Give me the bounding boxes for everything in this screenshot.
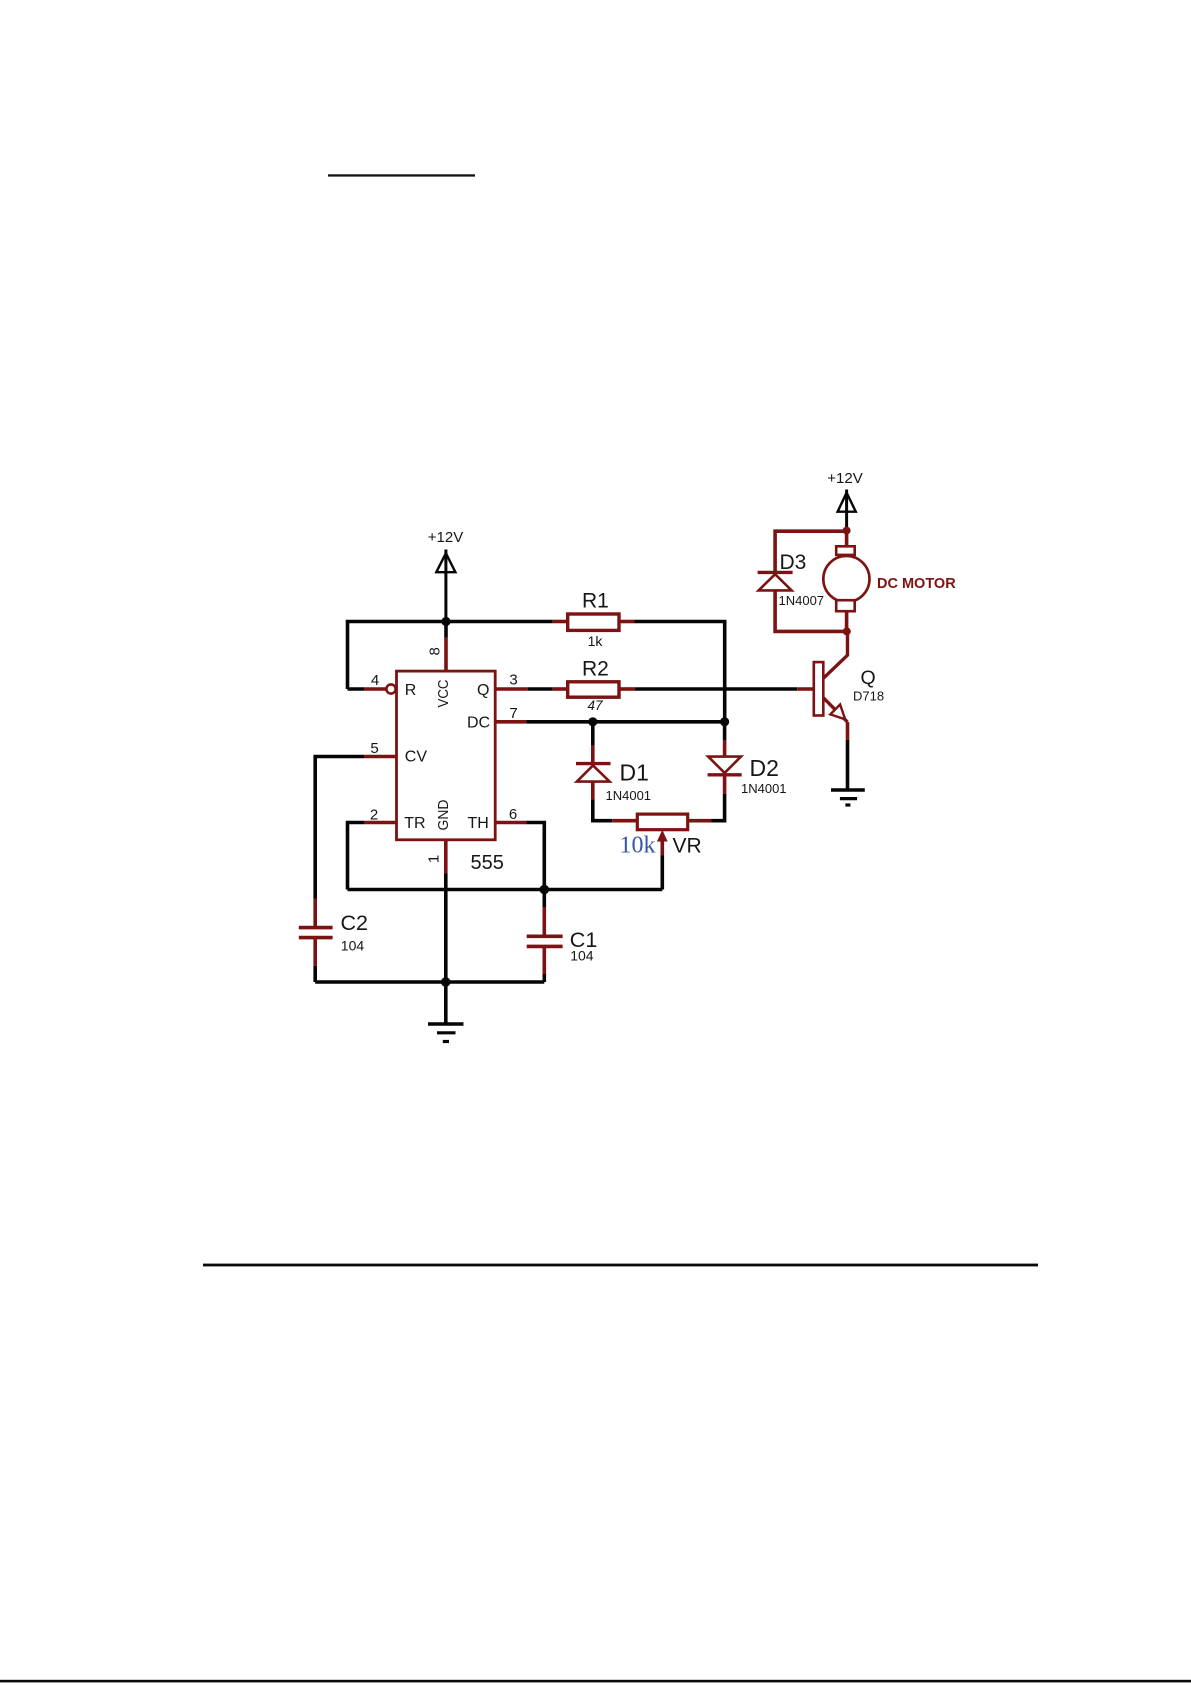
capacitor C2 bbox=[299, 928, 333, 982]
wire pin 3 output bbox=[495, 687, 553, 691]
svg-text:1N4007: 1N4007 bbox=[779, 593, 825, 608]
wire pin 7 discharge bbox=[495, 720, 725, 724]
pin label TH bbox=[468, 815, 489, 832]
value D718 bbox=[853, 689, 884, 704]
power symbol +12V (left) bbox=[436, 550, 455, 622]
value 1N4007 bbox=[779, 593, 825, 608]
horizontal rule mid page bbox=[203, 1264, 1038, 1267]
svg-text:7: 7 bbox=[509, 705, 517, 722]
wire pin 5 CV to C2 bbox=[315, 757, 396, 927]
potentiometer VR wiper arrow bbox=[657, 830, 668, 890]
value 1k bbox=[588, 633, 604, 649]
top heading underline bbox=[328, 174, 475, 176]
resistor R1 label bbox=[582, 590, 609, 613]
wire D2 top bbox=[723, 722, 727, 757]
transistor Q label bbox=[861, 667, 876, 689]
potentiometer VR body bbox=[637, 814, 687, 830]
pin 7 number bbox=[509, 705, 517, 722]
wire pin 2 TR bbox=[348, 823, 397, 890]
svg-text:Q: Q bbox=[861, 667, 876, 689]
diode D3 bbox=[758, 572, 793, 590]
svg-text:1N4001: 1N4001 bbox=[606, 788, 652, 803]
resistor R2 bbox=[553, 682, 635, 697]
net +12V label (left) bbox=[428, 529, 463, 546]
diode D2 label bbox=[750, 755, 779, 781]
capacitor C1 label bbox=[570, 928, 597, 952]
wire emitter to ground bbox=[846, 722, 850, 789]
svg-text:555: 555 bbox=[471, 852, 504, 874]
wire collector bbox=[823, 631, 847, 678]
svg-text:104: 104 bbox=[341, 938, 365, 954]
svg-text:CV: CV bbox=[405, 749, 428, 766]
pin 1 number (rotated) bbox=[426, 855, 443, 863]
svg-text:8: 8 bbox=[427, 647, 444, 655]
wire D3 branch bottom bbox=[775, 590, 847, 631]
svg-text:R1: R1 bbox=[582, 590, 609, 613]
svg-text:1: 1 bbox=[426, 855, 443, 863]
svg-text:104: 104 bbox=[570, 948, 594, 964]
power symbol +12V (right) bbox=[838, 490, 856, 531]
value 104 (C2) bbox=[341, 938, 365, 954]
wire D3 branch top bbox=[775, 531, 847, 571]
wire base (R2 to Q) bbox=[635, 687, 814, 691]
wire D1 top bbox=[591, 722, 595, 763]
svg-text:C2: C2 bbox=[341, 911, 368, 935]
motor label DC MOTOR bbox=[877, 576, 956, 592]
wire ground stem bbox=[444, 982, 448, 1023]
diode D1 label bbox=[620, 760, 649, 786]
wire D2 bottom to VR bbox=[688, 775, 725, 821]
svg-text:+12V: +12V bbox=[827, 470, 862, 487]
ground symbol (main) bbox=[428, 1024, 464, 1042]
ground symbol (emitter) bbox=[831, 790, 865, 805]
svg-text:VCC: VCC bbox=[436, 680, 452, 708]
pin label DC bbox=[467, 714, 490, 731]
value 47 bbox=[587, 698, 603, 713]
svg-text:1N4001: 1N4001 bbox=[741, 781, 787, 796]
node junction TH bus / C1 bbox=[540, 885, 550, 895]
svg-text:Q: Q bbox=[477, 682, 489, 699]
pin 6 number bbox=[509, 806, 517, 823]
pin 4 number bbox=[371, 672, 379, 689]
svg-text:47: 47 bbox=[587, 698, 603, 713]
wire pin 1 stem bbox=[444, 840, 448, 982]
capacitor C2 label bbox=[341, 911, 368, 935]
svg-text:GND: GND bbox=[436, 800, 452, 831]
wire VCC top bus bbox=[348, 622, 553, 690]
svg-text:TR: TR bbox=[404, 815, 425, 832]
node junction VCC bus / pin 8 bbox=[441, 617, 450, 626]
svg-text:5: 5 bbox=[370, 740, 378, 757]
value 1N4001 (D1) bbox=[606, 788, 652, 803]
op-amp/timer IC U1 555 body bbox=[397, 671, 496, 840]
svg-text:R2: R2 bbox=[582, 658, 609, 681]
svg-text:3: 3 bbox=[509, 672, 517, 689]
wire pin 6 TH bbox=[495, 823, 544, 890]
wire TR/TH bus bbox=[348, 888, 663, 892]
motor M1 DC MOTOR bbox=[823, 531, 869, 632]
diode D3 label bbox=[780, 551, 807, 574]
svg-text:DC: DC bbox=[467, 714, 490, 731]
resistor R1 bbox=[553, 614, 635, 630]
net +12V label (right) bbox=[827, 470, 862, 487]
svg-text:D3: D3 bbox=[780, 551, 807, 574]
transistor Q1 emitter with arrow bbox=[823, 698, 847, 722]
diode D2 bbox=[708, 757, 742, 775]
pin label GND (rotated) bbox=[436, 800, 452, 831]
svg-text:D718: D718 bbox=[853, 689, 884, 704]
wire D1 bottom to VR bbox=[593, 782, 638, 821]
node junction pin7 / R1 bus / D2 bbox=[720, 717, 729, 726]
pin label CV bbox=[405, 749, 428, 766]
svg-text:R: R bbox=[405, 682, 417, 699]
svg-text:VR: VR bbox=[673, 835, 702, 858]
svg-text:D2: D2 bbox=[750, 755, 779, 781]
value 104 (C1) bbox=[570, 948, 594, 964]
resistor R2 label bbox=[582, 658, 609, 681]
svg-text:+12V: +12V bbox=[428, 529, 463, 546]
inversion bubble pin R bbox=[386, 684, 395, 693]
svg-text:DC MOTOR: DC MOTOR bbox=[877, 576, 956, 592]
node junction +12V / motor / D3 bbox=[843, 527, 851, 535]
pin label TR bbox=[404, 815, 425, 832]
pin 3 number bbox=[509, 672, 517, 689]
pin 8 number (rotated) bbox=[427, 647, 444, 655]
node junction ground bus bbox=[441, 977, 451, 987]
transistor Q1 base bar bbox=[814, 662, 824, 715]
svg-text:D1: D1 bbox=[620, 760, 649, 786]
svg-text:TH: TH bbox=[468, 815, 489, 832]
potentiometer VR label bbox=[673, 835, 702, 858]
pin label Q bbox=[477, 682, 489, 699]
diode D1 bbox=[576, 764, 611, 782]
pin label R bbox=[405, 682, 417, 699]
pin 5 number bbox=[370, 740, 378, 757]
IC value 555 bbox=[471, 852, 504, 874]
bottom page rule bbox=[0, 1680, 1191, 1683]
svg-text:1k: 1k bbox=[588, 633, 604, 649]
wire pin 8 stem bbox=[444, 622, 448, 672]
node junction pin7 / D1 bbox=[588, 717, 597, 726]
value 10k bbox=[620, 832, 656, 858]
node junction motor / D3 / collector bbox=[843, 627, 851, 635]
value 1N4001 (D2) bbox=[741, 781, 787, 796]
pin 2 number bbox=[370, 807, 378, 824]
wire ground bus bbox=[315, 980, 544, 984]
svg-text:6: 6 bbox=[509, 806, 517, 823]
wire R1 to right bus bbox=[635, 622, 725, 722]
wire pin 4 reset bbox=[348, 687, 387, 691]
svg-text:4: 4 bbox=[371, 672, 379, 689]
pin label VCC (rotated) bbox=[436, 680, 452, 708]
capacitor C1 bbox=[527, 890, 563, 983]
svg-text:10k: 10k bbox=[620, 832, 656, 858]
